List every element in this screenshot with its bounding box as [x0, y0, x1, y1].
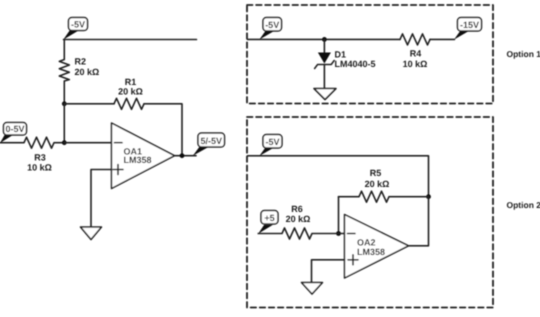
op-amp OA2 — [345, 215, 409, 279]
svg-text:-15V: -15V — [460, 20, 479, 30]
svg-text:R4: R4 — [410, 49, 422, 59]
svg-text:R6: R6 — [291, 204, 303, 214]
svg-text:0-5V: 0-5V — [5, 124, 24, 134]
voltage label 0-5V — [0, 123, 27, 144]
dashed box Option 1 — [247, 5, 493, 104]
svg-text:20 kΩ: 20 kΩ — [286, 214, 311, 224]
svg-text:+5: +5 — [264, 213, 274, 223]
wire -5V rail main — [64, 39, 197, 41]
svg-text:R1: R1 — [125, 77, 137, 87]
wire -5V rail Option 1 — [248, 38, 401, 40]
ground GND1 — [81, 227, 102, 240]
wire feedback upper — [64, 103, 114, 105]
svg-text:R5: R5 — [370, 168, 382, 178]
resistor R4 — [400, 34, 430, 45]
svg-text:5/-5V: 5/-5V — [200, 136, 222, 146]
resistor R6 — [258, 228, 344, 239]
node junction R2 / R1 feedback — [62, 101, 67, 106]
svg-text:Option 1: Option 1 — [507, 49, 540, 59]
wire inverting node vertical — [63, 104, 65, 143]
svg-text:OA2: OA2 — [357, 237, 376, 247]
wire output — [175, 155, 197, 157]
svg-text:20 kΩ: 20 kΩ — [75, 67, 100, 77]
svg-text:10 kΩ: 10 kΩ — [27, 163, 52, 173]
svg-text:-5V: -5V — [265, 137, 279, 147]
resistor R5 — [339, 191, 429, 202]
svg-text:LM358: LM358 — [357, 247, 385, 257]
node junction D1 anode rail — [322, 37, 327, 42]
resistor R2 — [59, 40, 69, 104]
resistor R1 — [114, 98, 144, 109]
node junction output / feedback — [180, 153, 185, 158]
ground GND3 — [302, 283, 323, 295]
ground GND2 — [314, 89, 336, 100]
voltage label -15V — [454, 18, 482, 40]
wire -5V rail Option 2 — [248, 156, 429, 197]
wire non-inverting input to ground — [91, 170, 112, 228]
node junction R6 / feedback — [336, 231, 341, 236]
svg-text:-5V: -5V — [265, 20, 279, 30]
wire non-inverting input OA2 to ground — [312, 260, 345, 283]
diode D1 zener — [315, 39, 335, 88]
voltage label 5/-5V — [193, 133, 225, 156]
svg-text:-5V: -5V — [71, 20, 85, 30]
node junction R5 / output rail — [426, 194, 431, 199]
svg-text:20 kΩ: 20 kΩ — [365, 179, 390, 189]
wire feedback to inverting input OA2 — [338, 197, 340, 234]
wire feedback to output — [144, 104, 182, 156]
svg-text:R2: R2 — [75, 57, 87, 67]
wire inverting input — [64, 142, 111, 144]
voltage label +5 — [258, 211, 278, 234]
wire output net OA2 — [409, 197, 429, 246]
svg-text:10 kΩ: 10 kΩ — [403, 59, 428, 69]
op-amp OA1 — [112, 123, 175, 189]
svg-text:R3: R3 — [34, 153, 46, 163]
voltage label -5V — [63, 18, 87, 40]
voltage label -5V Option 1 — [259, 18, 281, 40]
wire R4 to -15V — [430, 38, 455, 40]
resistor R3 — [0, 137, 64, 148]
svg-text:D1: D1 — [335, 50, 347, 60]
dashed box Option 2 — [247, 117, 493, 308]
svg-text:20 kΩ: 20 kΩ — [118, 87, 143, 97]
voltage label -5V Option 2 — [259, 135, 282, 157]
node junction R3 / inverting input — [62, 140, 67, 145]
svg-text:LM358: LM358 — [124, 155, 152, 165]
svg-text:Option 2: Option 2 — [507, 200, 540, 210]
svg-text:LM4040-5: LM4040-5 — [335, 59, 376, 69]
